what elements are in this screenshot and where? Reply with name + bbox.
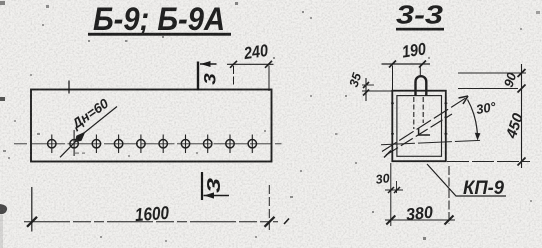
horizontal reference line: [381, 140, 480, 144]
section cut mark 3 (bottom): [202, 172, 229, 200]
title Б-9; Б-9А: [88, 1, 231, 37]
centerline of holes: [14, 143, 282, 145]
section edge tick marks: [391, 103, 447, 135]
arrowhead on diagonal end: [459, 96, 469, 104]
holes row (10 holes d=60): [48, 140, 257, 148]
leader КП-9: [427, 164, 506, 196]
diagonal lines 30 deg: [382, 98, 467, 158]
dimension 30 (bottom left of section): [385, 181, 403, 193]
angle arc 30deg: [468, 100, 478, 138]
tiny mark A-X: [75, 153, 85, 154]
mark tick on beam top edge: [68, 81, 70, 94]
title З-З: [396, 0, 444, 31]
section inner outline: [397, 96, 442, 157]
loop embedded legs (dashed): [414, 97, 430, 135]
dimension 1600: [24, 185, 289, 232]
section outer outline: [392, 91, 446, 162]
lifting loop: [416, 76, 427, 96]
beam outline B-9: [31, 90, 272, 162]
section cut mark 3 (top): [198, 61, 217, 91]
arrowhead on arc bottom: [475, 133, 481, 141]
leader line Дн=60: [60, 107, 117, 158]
dimension 35: [362, 78, 392, 101]
dimension 240: [227, 61, 274, 91]
dimension line 90/450: [518, 64, 526, 168]
dimension 380: [385, 163, 455, 226]
hole center tick marks: [52, 130, 253, 156]
right dimension extension lines: [447, 73, 530, 162]
dimension 190: [382, 61, 431, 91]
